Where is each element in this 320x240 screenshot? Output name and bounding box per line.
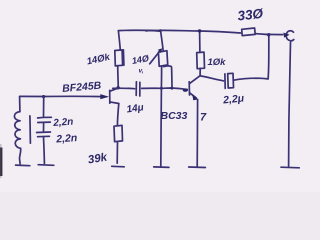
transistor Q2 emitter lead with arrow (190, 93, 197, 98)
wire: R4 to junction (255, 33, 266, 36)
wire: R1 to drain node (117, 66, 120, 88)
wire: tank left corner down (19, 97, 21, 112)
wire: collector up to R3 (199, 68, 201, 75)
capacitor C3 (2,2u) left plate (224, 74, 226, 89)
inductor L1 coil (14, 112, 20, 149)
capacitor C2b (2,2n) top plate (37, 131, 51, 134)
wire: pot bottom straight down to ground (160, 67, 163, 167)
wire: Q1 source down to R5 (117, 104, 118, 126)
capacitor C3 right plate box (228, 73, 234, 88)
transistor Q2 BC337 bar (188, 82, 190, 95)
svg-text:7: 7 (200, 112, 207, 124)
potentiometer P1 wiper arrow (150, 51, 161, 64)
wire: caps to ground (43, 137, 46, 164)
node: pot step junction (170, 87, 173, 90)
svg-text:1Øk: 1Øk (208, 57, 227, 68)
ground: pot branch (154, 166, 169, 169)
node: rail junction at R3 (198, 29, 201, 32)
svg-text:BC33: BC33 (161, 110, 188, 122)
wire: terminal down to ground (289, 42, 291, 166)
capacitor C1 right plate (139, 82, 141, 96)
ground: emitter (189, 166, 206, 169)
wire: pot step down to base rail (164, 66, 172, 88)
svg-text:2,2n: 2,2n (52, 117, 74, 129)
ground: cap chain (38, 164, 54, 167)
resistor R3 (10k collector) (197, 52, 205, 69)
node: junction at rail/output (267, 33, 270, 36)
capacitor C2a bottom plate (38, 121, 51, 123)
transistor Q1 BF245B channel bar (109, 90, 111, 103)
wire: C3 to output corner (234, 78, 268, 80)
transistor Q2 collector lead (190, 76, 201, 84)
wire: rail to pot P1 (161, 31, 164, 51)
capacitor C1 (14u coupling) left plate (135, 82, 137, 96)
output terminal arrow blob (283, 33, 289, 38)
wire: R5 down to ground (116, 142, 118, 163)
ground: R5 small bar (112, 165, 125, 168)
node: tank top junction (42, 95, 45, 98)
wire: top supply rail (118, 30, 240, 33)
wire: gate line from tank to Q1 (20, 95, 107, 97)
wire: link between series caps (43, 123, 45, 131)
node: drain junction (116, 86, 119, 89)
resistor R4 (330 output) horizontal box (242, 28, 256, 36)
wire: V1 drop from rail to R1 (118, 31, 120, 50)
transistor Q1 gate arrow (100, 94, 109, 99)
paper background (0, 0, 320, 192)
resistor R5 (39k source resistor) (114, 125, 123, 141)
wire: drain node to C1 (113, 87, 135, 90)
output terminal curl (286, 31, 294, 41)
scanner edge artifact left (0, 148, 2, 177)
inductor L1 core line (29, 116, 32, 143)
wire: emitter down to ground (196, 99, 198, 166)
svg-text:33Ø: 33Ø (237, 6, 264, 24)
ground: tank left (16, 164, 30, 167)
transistor Q1 source lead (110, 102, 119, 104)
transistor Q1 drain lead (110, 88, 119, 92)
wire: C1 to base rail (142, 88, 188, 90)
node: rail tick at pot branch (159, 29, 162, 32)
node: pot bottom junction (160, 87, 163, 90)
wire: output corner up to rail (267, 35, 270, 79)
resistor R1 (10k drain resistor) (115, 50, 124, 66)
wire: rail to R3 (199, 31, 201, 52)
wire: collector to C3 (200, 76, 223, 81)
capacitor C2a (2,2n) top plate (38, 116, 52, 119)
wire: coil tail to ground (20, 148, 21, 164)
capacitor C2b bottom plate (38, 135, 50, 137)
svg-text:2,2μ: 2,2μ (222, 92, 246, 106)
svg-text:v,: v, (139, 68, 144, 75)
ground: output (281, 166, 299, 169)
wire: cap chain from tank top (43, 97, 45, 117)
svg-text:2,2n: 2,2n (55, 132, 78, 146)
node: base junction blob (183, 89, 188, 92)
potentiometer P1 body (158, 51, 167, 67)
wire: rail overlap stroke near pot branch (146, 29, 161, 32)
wire: junction to output terminal (266, 33, 283, 35)
